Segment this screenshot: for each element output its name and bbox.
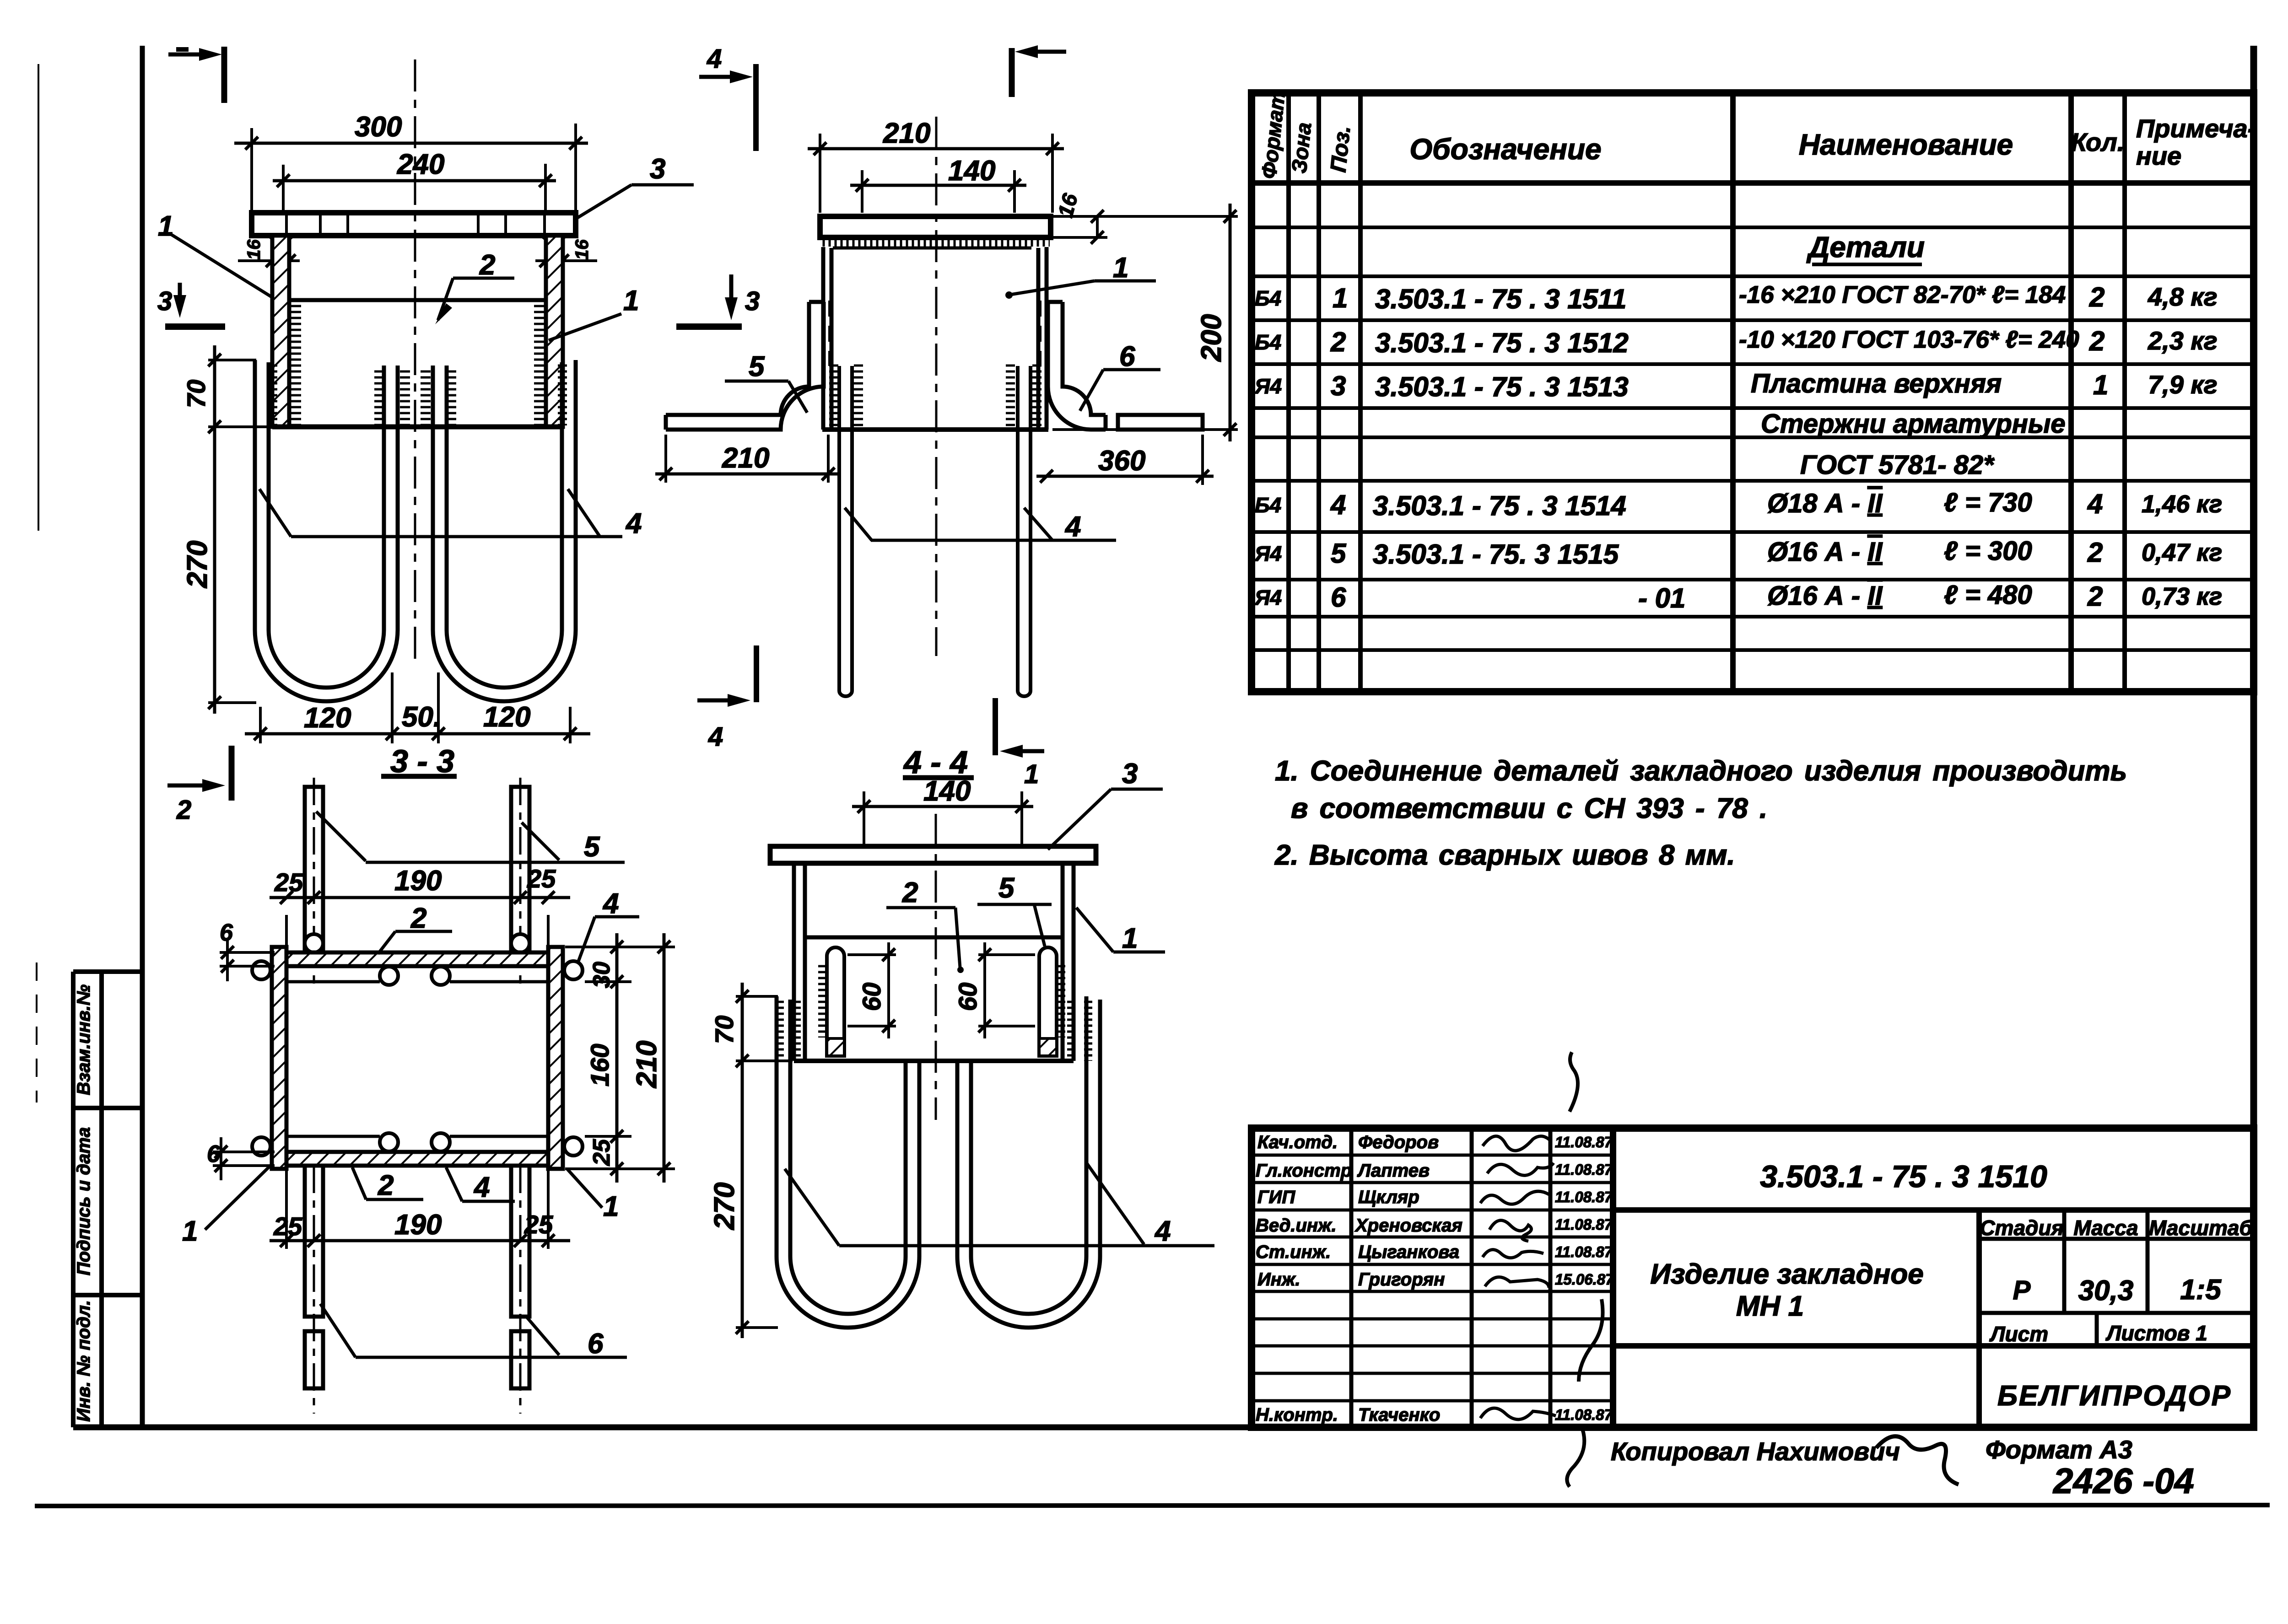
svg-text:270: 270 (182, 541, 213, 588)
svg-text:160: 160 (585, 1044, 614, 1086)
svg-text:120: 120 (483, 701, 530, 733)
svg-text:25: 25 (274, 868, 303, 897)
svg-text:Поз.: Поз. (1326, 124, 1355, 173)
svg-text:2426 -04: 2426 -04 (2052, 1461, 2194, 1501)
svg-text:Лист: Лист (1989, 1322, 2048, 1346)
svg-text:4: 4 (602, 888, 619, 920)
svg-text:3: 3 (650, 153, 665, 185)
svg-text:Инж.: Инж. (1257, 1269, 1300, 1290)
svg-text:0,73 кг: 0,73 кг (2142, 583, 2222, 610)
svg-text:Ø18 А - II: Ø18 А - II (1767, 489, 1883, 518)
svg-text:16: 16 (572, 239, 592, 260)
svg-text:Ø16 А - II: Ø16 А - II (1767, 537, 1883, 567)
svg-text:240: 240 (397, 149, 444, 180)
svg-text:50.: 50. (402, 701, 441, 733)
svg-text:4: 4 (1064, 511, 1081, 543)
svg-text:2: 2 (176, 795, 191, 825)
svg-text:3: 3 (1331, 371, 1346, 401)
svg-text:Наименование: Наименование (1799, 128, 2013, 161)
svg-text:Листов 1: Листов 1 (2105, 1321, 2207, 1345)
svg-text:Ткаченко: Ткаченко (1358, 1405, 1440, 1425)
svg-text:Примеча-: Примеча- (2136, 114, 2256, 143)
svg-text:1: 1 (1333, 283, 1348, 313)
svg-text:Кач.отд.: Кач.отд. (1257, 1132, 1338, 1152)
svg-text:Ø16 А - II: Ø16 А - II (1767, 581, 1883, 611)
svg-text:Лаптев: Лаптев (1357, 1161, 1430, 1181)
svg-text:140: 140 (948, 155, 995, 187)
svg-text:- 01: - 01 (1638, 583, 1685, 613)
svg-text:1: 1 (158, 210, 173, 242)
svg-text:2: 2 (479, 249, 495, 281)
svg-text:1: 1 (1113, 252, 1128, 284)
svg-text:4: 4 (473, 1172, 490, 1203)
svg-text:ℓ = 480: ℓ = 480 (1944, 580, 2032, 610)
svg-text:140: 140 (923, 775, 971, 807)
svg-text:Взам.инв.№: Взам.инв.№ (74, 984, 94, 1095)
svg-text:2: 2 (2087, 581, 2103, 612)
svg-text:в соответствии с СН 393 -: в соответствии с СН 393 - 78 . (1291, 793, 1767, 824)
svg-text:190: 190 (394, 1209, 442, 1241)
svg-text:Вед.инж.: Вед.инж. (1256, 1215, 1337, 1236)
svg-text:4: 4 (1330, 489, 1346, 520)
svg-text:3 - 3: 3 - 3 (390, 743, 454, 779)
svg-text:3.503.1 - 75 . 3 1513: 3.503.1 - 75 . 3 1513 (1375, 371, 1629, 402)
svg-text:4: 4 (625, 508, 642, 539)
svg-text:11.08.87: 11.08.87 (1555, 1188, 1613, 1205)
svg-text:БЕЛГИПРОДОР: БЕЛГИПРОДОР (1997, 1380, 2232, 1412)
svg-text:Н.контр.: Н.контр. (1256, 1405, 1338, 1425)
svg-text:6: 6 (1331, 582, 1346, 613)
svg-text:7,9 кг: 7,9 кг (2148, 370, 2218, 399)
svg-text:25: 25 (527, 864, 556, 893)
svg-text:1: 1 (2093, 370, 2108, 400)
svg-text:3.503.1 - 75 . 3 1510: 3.503.1 - 75 . 3 1510 (1760, 1159, 2047, 1194)
svg-text:60: 60 (953, 983, 982, 1011)
svg-text:11.08.87: 11.08.87 (1555, 1216, 1613, 1233)
svg-text:Гл.констр: Гл.констр (1256, 1161, 1352, 1181)
svg-text:1. Соединение деталей закла: 1. Соединение деталей закладного изделия… (1275, 755, 2127, 787)
svg-text:Я4: Я4 (1254, 542, 1282, 565)
svg-text:ℓ = 300: ℓ = 300 (1944, 536, 2032, 566)
svg-text:МН 1: МН 1 (1736, 1291, 1804, 1322)
svg-text:Подпись и дата: Подпись и дата (74, 1127, 94, 1275)
svg-text:210: 210 (722, 442, 769, 474)
svg-text:2: 2 (902, 877, 918, 909)
svg-text:3: 3 (157, 286, 172, 316)
svg-text:Стержни арматурные: Стержни арматурные (1761, 409, 2066, 439)
svg-text:Кол.: Кол. (2071, 128, 2125, 156)
svg-text:Обозначение: Обозначение (1409, 133, 1601, 166)
svg-text:Стадия: Стадия (1980, 1216, 2063, 1240)
svg-text:ГИП: ГИП (1257, 1187, 1295, 1207)
svg-text:Цыганкова: Цыганкова (1358, 1242, 1459, 1262)
svg-text:25: 25 (588, 1139, 615, 1166)
svg-text:-16 ×210 ГОСТ 82-70* ℓ= 184: -16 ×210 ГОСТ 82-70* ℓ= 184 (1739, 281, 2066, 308)
svg-text:2: 2 (2089, 282, 2105, 312)
svg-text:5: 5 (998, 872, 1015, 904)
svg-text:Изделие закладное: Изделие закладное (1650, 1258, 1923, 1290)
svg-text:3.503.1 - 75 . 3 1511: 3.503.1 - 75 . 3 1511 (1375, 284, 1626, 314)
svg-text:1: 1 (603, 1191, 619, 1222)
svg-text:360: 360 (1098, 445, 1145, 477)
svg-text:2: 2 (2087, 537, 2103, 568)
svg-text:2: 2 (410, 903, 426, 934)
svg-text:6: 6 (207, 1141, 221, 1167)
svg-text:210: 210 (883, 118, 930, 149)
svg-text:ℓ = 730: ℓ = 730 (1944, 488, 2032, 517)
svg-text:3.503.1 - 75 . 3 1512: 3.503.1 - 75 . 3 1512 (1375, 328, 1629, 358)
svg-text:Ст.инж.: Ст.инж. (1256, 1242, 1331, 1262)
svg-text:Р: Р (2013, 1275, 2031, 1305)
svg-text:3.503.1 - 75 . 3 1514: 3.503.1 - 75 . 3 1514 (1373, 490, 1626, 521)
svg-text:1: 1 (623, 285, 639, 317)
svg-text:11.08.87: 11.08.87 (1555, 1406, 1613, 1423)
svg-text:4: 4 (1154, 1215, 1171, 1247)
svg-text:11.08.87: 11.08.87 (1555, 1161, 1613, 1178)
svg-text:200: 200 (1196, 314, 1227, 362)
svg-text:60: 60 (857, 983, 886, 1011)
svg-text:6: 6 (1119, 341, 1135, 372)
svg-text:11.08.87: 11.08.87 (1555, 1134, 1613, 1151)
svg-text:270: 270 (709, 1183, 740, 1230)
svg-text:6: 6 (588, 1328, 604, 1360)
svg-text:ГОСТ 5781- 82*: ГОСТ 5781- 82* (1800, 450, 1995, 480)
svg-text:Копировал Нахимович: Копировал Нахимович (1611, 1437, 1900, 1466)
svg-text:25: 25 (524, 1210, 553, 1239)
svg-text:6: 6 (220, 920, 233, 946)
svg-text:5: 5 (584, 831, 600, 863)
svg-text:1: 1 (182, 1215, 198, 1247)
svg-text:1:5: 1:5 (2180, 1274, 2222, 1306)
svg-text:4: 4 (2087, 489, 2103, 519)
svg-text:4: 4 (707, 44, 722, 74)
svg-text:1,46 кг: 1,46 кг (2142, 490, 2222, 518)
svg-text:2: 2 (378, 1170, 394, 1201)
svg-text:3.503.1 - 75. 3 1515: 3.503.1 - 75. 3 1515 (1373, 539, 1619, 570)
svg-text:Масса: Масса (2073, 1216, 2138, 1240)
svg-text:4 - 4: 4 - 4 (903, 744, 968, 780)
svg-text:Б4: Б4 (1255, 493, 1281, 517)
svg-text:Я4: Я4 (1254, 586, 1282, 609)
svg-text:11.08.87: 11.08.87 (1555, 1243, 1613, 1260)
svg-text:120: 120 (304, 702, 351, 734)
svg-text:25: 25 (273, 1212, 302, 1241)
svg-text:Григорян: Григорян (1358, 1269, 1445, 1290)
svg-text:Б4: Б4 (1255, 286, 1281, 310)
svg-text:2: 2 (1330, 327, 1346, 357)
svg-text:Детали: Детали (1806, 231, 1925, 263)
svg-text:15.06.87: 15.06.87 (1555, 1271, 1614, 1288)
svg-text:Федоров: Федоров (1358, 1132, 1439, 1152)
svg-text:210: 210 (631, 1041, 663, 1088)
svg-text:Масштаб: Масштаб (2149, 1216, 2253, 1240)
svg-text:3: 3 (1122, 758, 1138, 790)
svg-text:-10 ×120 ГОСТ 103-76* ℓ= 240: -10 ×120 ГОСТ 103-76* ℓ= 240 (1739, 326, 2079, 353)
svg-text:190: 190 (394, 865, 442, 897)
svg-text:300: 300 (355, 111, 402, 143)
svg-text:2. Высота сварных швов 8: 2. Высота сварных швов 8 мм. (1274, 839, 1735, 871)
svg-text:30: 30 (588, 962, 615, 988)
svg-text:16: 16 (244, 239, 264, 260)
svg-text:1: 1 (1122, 923, 1138, 954)
svg-text:Пластина верхняя: Пластина верхняя (1751, 369, 2002, 398)
svg-text:Хреновская: Хреновская (1354, 1215, 1462, 1236)
svg-text:2,3 кг: 2,3 кг (2148, 326, 2218, 355)
svg-text:Б4: Б4 (1255, 330, 1281, 354)
svg-text:3: 3 (745, 286, 760, 316)
svg-text:Щкляр: Щкляр (1358, 1187, 1419, 1207)
svg-text:4,8 кг: 4,8 кг (2148, 282, 2218, 311)
svg-text:1: 1 (1024, 759, 1039, 789)
svg-text:5: 5 (1331, 538, 1347, 569)
svg-text:70: 70 (182, 380, 210, 408)
svg-text:2: 2 (2089, 326, 2105, 356)
svg-text:Формат А3: Формат А3 (1986, 1435, 2132, 1464)
svg-text:Инв. № подл.: Инв. № подл. (74, 1300, 94, 1422)
svg-text:Я4: Я4 (1254, 374, 1282, 398)
svg-text:70: 70 (710, 1016, 739, 1044)
svg-text:ние: ние (2136, 141, 2181, 170)
svg-text:30,3: 30,3 (2078, 1275, 2134, 1307)
svg-text:0,47 кг: 0,47 кг (2142, 539, 2222, 566)
svg-text:5: 5 (749, 351, 765, 382)
svg-text:4: 4 (708, 722, 723, 752)
